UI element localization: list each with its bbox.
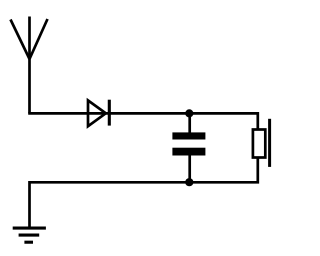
- earphone LS1: [253, 119, 270, 167]
- wire top: antenna to earphone corner: [28, 113, 258, 129]
- ground GND: [13, 228, 46, 242]
- node junction top: [185, 109, 193, 117]
- diode D1: [88, 100, 109, 127]
- wire bottom: earphone to ground corner: [30, 158, 258, 227]
- antenna ANT1: [11, 17, 48, 114]
- node junction bottom: [185, 178, 193, 186]
- capacitor C1: [172, 113, 205, 182]
